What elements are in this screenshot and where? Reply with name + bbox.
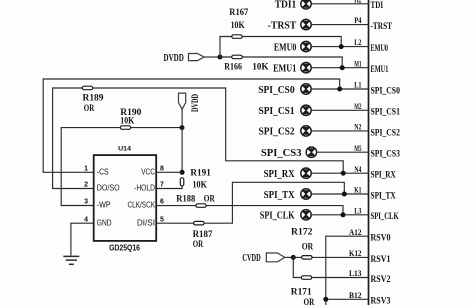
wire SPI_CS1 to connector [311,109,368,111]
junction RSV3 node [323,297,328,302]
svg-text:SPI_CS1: SPI_CS1 [371,107,401,117]
svg-text:10K: 10K [252,61,269,72]
svg-text:-CS: -CS [97,167,109,176]
wire SPI_CS3 to connector [317,151,369,153]
wire CVDD stub [285,256,294,258]
wire R167 branch DVDD to EMU0 [220,37,341,58]
test point SPI_RX [301,168,311,178]
svg-text:10K: 10K [120,115,134,126]
svg-text:B12: B12 [349,290,362,300]
wire RSV2 net via R171 [293,257,368,277]
svg-text:DO/SO: DO/SO [97,184,120,193]
svg-text:10K: 10K [193,180,208,191]
svg-text:N4: N4 [354,164,362,174]
power port CVDD [266,253,285,262]
test point SPI_CS0 [301,84,311,94]
connector J1 body edge [368,0,370,305]
junction EMU1 net [340,65,345,70]
svg-text:GD25Q16: GD25Q16 [109,243,140,252]
wire U14 pin8 VCC stub [156,171,182,173]
test point -TRST [301,19,311,29]
svg-text:CVDD: CVDD [242,253,260,264]
svg-text:5: 5 [160,216,164,223]
test point SPI_CLK [301,210,311,220]
svg-text:A12: A12 [349,227,362,237]
svg-text:R189: R189 [83,93,104,104]
svg-text:SPI_RX: SPI_RX [371,170,396,180]
junction SPI_RX net [341,171,346,176]
junction SPI_CLK net [341,212,346,217]
svg-text:CLK/SCK: CLK/SCK [128,201,156,210]
wire CS net: U14 pin1 to SPI_CS0 [43,79,340,172]
test point TDI1 [301,0,311,9]
svg-text:U14: U14 [118,146,131,153]
resistor R171 body [301,276,311,280]
power port DVDD (at U14) [179,93,186,109]
svg-text:M1: M1 [354,58,361,68]
wire TDI1 to connector [311,3,368,5]
svg-text:H2: H2 [354,0,362,4]
wire SPI_CS2 to connector [311,130,368,132]
svg-text:OR: OR [302,242,314,253]
svg-text:OR: OR [193,239,204,250]
svg-text:SPI_CS2: SPI_CS2 [371,127,401,137]
svg-text:SPI_CS0: SPI_CS0 [258,85,294,96]
svg-text:L1: L1 [354,80,361,90]
wire CLK net: U14 pin6 via R188 to SPI_CLK [156,206,343,215]
svg-text:EMU0: EMU0 [371,43,389,53]
wire DVDD stub [204,56,220,58]
IC U14 GD25Q16 body [94,155,157,241]
wire SPI_CLK to connector [311,214,368,216]
svg-text:-HOLD: -HOLD [134,184,155,193]
svg-text:SPI_TX: SPI_TX [371,190,396,200]
svg-text:RSV0: RSV0 [371,233,391,243]
wire SPI_RX to connector [311,172,368,174]
svg-text:SPI_CS3: SPI_CS3 [261,148,302,159]
svg-text:8: 8 [160,165,164,172]
junction EMU0 net [339,44,344,49]
power port DVDD (top) [189,54,205,61]
wire EMU0 to connector [311,46,368,48]
test point SPI_CS1 [301,105,311,115]
wire EMU1 to connector [311,67,368,69]
svg-text:R167: R167 [229,7,248,18]
test point SPI_CS3 [306,147,316,157]
svg-text:L2: L2 [354,37,362,47]
svg-text:4: 4 [84,216,88,223]
svg-text:DI/SI: DI/SI [137,218,155,227]
svg-text:L3: L3 [354,205,362,215]
svg-text:SPI_TX: SPI_TX [264,190,295,201]
resistor R166 body [232,55,242,59]
svg-text:P4: P4 [354,15,362,25]
svg-text:SPI_CS2: SPI_CS2 [259,127,295,138]
svg-text:TDI1: TDI1 [275,0,297,11]
wire RSV0 to RSV3 tie [326,236,369,305]
test point SPI_TX [301,189,311,199]
svg-text:TDI: TDI [371,0,384,10]
svg-text:GND: GND [97,218,112,227]
svg-text:OR: OR [304,297,315,305]
resistor R189 body [82,86,92,90]
svg-text:SPI_CLK: SPI_CLK [371,211,400,221]
junction DVDD rail node [180,125,185,130]
svg-text:R166: R166 [224,61,242,72]
wire RSV3 net [326,298,369,300]
junction VCC node [180,170,185,175]
svg-text:1: 1 [84,165,88,172]
svg-text:M2: M2 [354,101,362,111]
svg-text:DVDD: DVDD [191,94,201,112]
svg-text:3: 3 [84,199,88,206]
svg-text:RSV1: RSV1 [371,254,391,264]
wire DO net: U14 pin2 via R189 to SPI_RX [53,88,344,189]
svg-text:SPI_CS0: SPI_CS0 [371,85,401,95]
svg-text:VCC: VCC [141,167,155,176]
junction SPI_CS0 net [337,87,342,92]
test point EMU0 [301,41,311,51]
svg-text:R188: R188 [176,194,195,205]
svg-text:K1: K1 [354,185,361,195]
resistor R191 body [180,178,184,186]
svg-text:OR: OR [84,103,95,114]
ground symbol [63,256,79,264]
svg-text:M5: M5 [354,143,362,153]
resistor R172 body [302,256,312,260]
svg-text:7: 7 [160,182,164,189]
junction DVDD node [218,55,223,60]
junction CVDD node [291,255,296,260]
svg-text:R172: R172 [291,227,313,238]
svg-text:N2: N2 [354,122,362,132]
svg-text:-WP: -WP [97,201,111,210]
resistor R167 body [232,35,242,39]
svg-text:EMU1: EMU1 [273,64,296,75]
svg-text:10K: 10K [231,20,245,31]
svg-text:SPI_RX: SPI_RX [264,169,295,180]
wire RSV1 net [293,256,368,258]
wire WP net: U14 pin3 via R190 to DVDD [61,128,182,206]
test point SPI_CS2 [301,126,311,136]
svg-text:2: 2 [84,182,88,189]
svg-text:K12: K12 [349,248,362,258]
svg-text:SPI_CLK: SPI_CLK [260,211,295,222]
resistor R187 body [194,221,204,225]
wire SPI_CS0 to connector [311,88,368,90]
svg-text:-TRST: -TRST [371,21,393,31]
svg-text:R191: R191 [190,167,211,178]
svg-text:RSV2: RSV2 [371,274,391,284]
resistor R188 body [196,204,206,208]
wire U14 pin4 to ground [71,223,94,255]
svg-text:RSV3: RSV3 [371,296,391,305]
svg-text:OR: OR [204,194,216,205]
wire R166 branch DVDD to EMU1 [220,57,342,68]
test point EMU1 [301,62,311,72]
svg-text:L13: L13 [349,268,362,278]
junction SPI_TX net [342,192,347,197]
resistor R190 body [120,126,130,130]
svg-text:DVDD: DVDD [164,53,184,64]
svg-text:-TRST: -TRST [268,20,297,31]
wire -TRST to connector [311,24,368,26]
wire U14 pin7 -HOLD stub [156,186,182,189]
svg-text:SPI_CS1: SPI_CS1 [259,106,295,117]
wire DI net: U14 pin5 via R187 to SPI_TX [156,182,344,223]
wire DVDD rail to U14 VCC [181,109,183,172]
svg-text:EMU0: EMU0 [274,42,296,53]
wire SPI_TX to connector [311,193,368,195]
svg-text:SPI_CS3: SPI_CS3 [371,149,401,159]
svg-text:6: 6 [160,199,164,206]
svg-text:EMU1: EMU1 [371,64,389,74]
